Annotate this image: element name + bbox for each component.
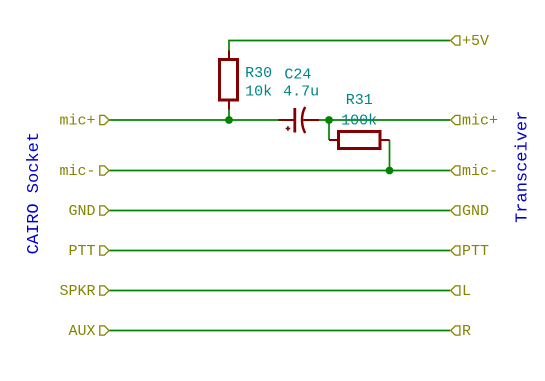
value label C24	[284, 67, 311, 84]
wire R31 right to mic-	[389, 140, 391, 171]
node label L right	[462, 283, 471, 300]
svg-text:mic+: mic+	[462, 113, 498, 130]
svg-text:100k: 100k	[341, 113, 377, 130]
node label +5V right	[462, 33, 489, 50]
svg-text:mic-: mic-	[462, 163, 498, 180]
connector pin mic+ right	[451, 115, 460, 124]
junction at C24 right	[325, 116, 333, 124]
connector pin GND left	[100, 206, 109, 215]
title CAIRO Socket	[25, 132, 44, 254]
svg-text:R30: R30	[245, 65, 272, 82]
node label PTT right	[462, 243, 489, 260]
wire PTT	[110, 250, 451, 252]
connector pin GND right	[451, 206, 460, 215]
wire GND	[110, 210, 451, 212]
value label R31	[346, 92, 373, 109]
wire +5V net	[229, 41, 450, 51]
svg-text:R: R	[462, 323, 471, 340]
value label 10k	[245, 84, 272, 101]
value label 100k	[341, 113, 377, 130]
svg-text:Transceiver: Transceiver	[514, 111, 533, 223]
connector pin R right	[451, 326, 460, 335]
node label mic- right	[462, 163, 498, 180]
resistor R31	[329, 132, 390, 149]
connector pin SPKR left	[100, 286, 109, 295]
node label SPKR left	[59, 283, 95, 300]
svg-text:10k: 10k	[245, 84, 272, 101]
node label R right	[462, 323, 471, 340]
wire mic+ left segment	[110, 119, 280, 121]
svg-text:GND: GND	[68, 203, 95, 220]
junction at R30 bottom	[225, 116, 233, 124]
wire mic+ right segment	[318, 119, 450, 121]
svg-text:4.7u: 4.7u	[283, 84, 319, 101]
connector pin mic- left	[100, 166, 109, 175]
svg-text:SPKR: SPKR	[59, 283, 95, 300]
svg-text:CAIRO Socket: CAIRO Socket	[25, 132, 44, 254]
capacitor C24	[279, 107, 320, 133]
connector pin PTT right	[451, 246, 460, 255]
resistor R30	[220, 51, 238, 110]
svg-text:C24: C24	[284, 67, 311, 84]
svg-text:mic-: mic-	[59, 163, 95, 180]
connector pin mic+ left	[100, 115, 109, 124]
junction at R31 right on mic-	[386, 167, 394, 175]
wire R30 bottom to mic+	[228, 110, 230, 121]
svg-text:GND: GND	[462, 203, 489, 220]
node label mic+ right	[462, 113, 498, 130]
node label mic+ left	[59, 113, 95, 130]
svg-text:PTT: PTT	[68, 243, 95, 260]
value label 4.7u	[283, 84, 319, 101]
connector pin PTT left	[100, 246, 109, 255]
node label PTT left	[68, 243, 95, 260]
svg-text:R31: R31	[346, 92, 373, 109]
node label GND left	[68, 203, 95, 220]
wire AUX-R	[110, 330, 451, 332]
wire mic-	[110, 170, 451, 172]
svg-text:mic+: mic+	[59, 113, 95, 130]
svg-text:AUX: AUX	[68, 323, 95, 340]
node label mic- left	[59, 163, 95, 180]
connector pin L right	[451, 286, 460, 295]
connector pin mic- right	[451, 166, 460, 175]
node label GND right	[462, 203, 489, 220]
node label AUX left	[68, 323, 95, 340]
value label R30	[245, 65, 272, 82]
connector pin +5V right	[451, 36, 460, 45]
svg-text:L: L	[462, 283, 471, 300]
wire SPKR-L	[110, 290, 451, 292]
svg-text:+5V: +5V	[462, 33, 489, 50]
title Transceiver	[514, 111, 533, 223]
svg-text:PTT: PTT	[462, 243, 489, 260]
connector pin AUX left	[100, 326, 109, 335]
wire junction to R31 left	[328, 120, 330, 140]
